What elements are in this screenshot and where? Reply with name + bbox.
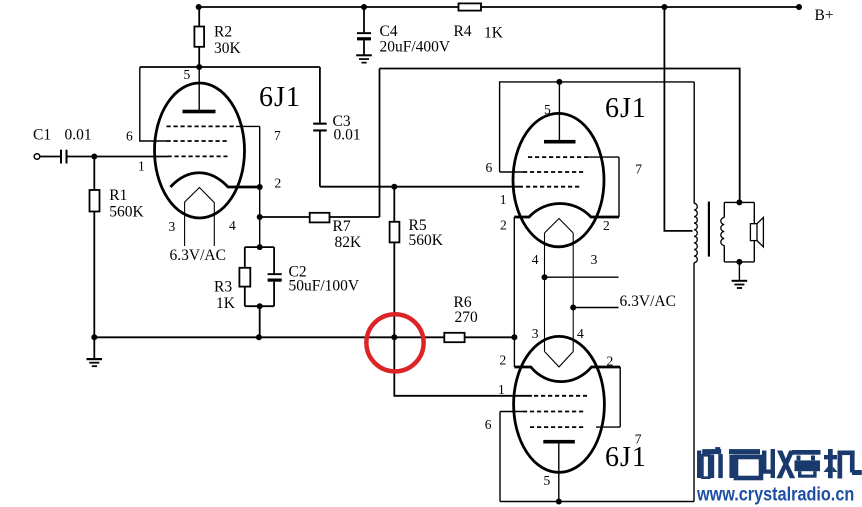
tube V2 grid row2 (pin6) <box>500 171 523 173</box>
glyph yin <box>792 450 821 478</box>
tube V1 plate bar <box>183 110 216 114</box>
wire heater feed lower <box>573 307 618 309</box>
tube V3 heater tent <box>545 352 574 367</box>
svg-text:560K: 560K <box>409 232 444 249</box>
svg-text:7: 7 <box>635 162 642 177</box>
node junction pin5 tube1 <box>196 64 202 70</box>
node junction R3C2 top <box>257 244 263 250</box>
tube V1 grid row3 (pin1) <box>168 155 228 157</box>
wire feedback rail <box>380 69 740 203</box>
svg-text:2: 2 <box>275 176 282 191</box>
transformer T1 secondary <box>721 202 725 262</box>
node junction pin2 tube1 <box>257 184 263 190</box>
node junction cathode chain <box>511 334 517 340</box>
tube V2 envelope <box>513 113 604 246</box>
highlight red circle <box>366 314 423 371</box>
tube V1 grid row1 (pin7) <box>167 125 237 127</box>
tube V2 cathode arc <box>514 204 619 218</box>
ground symbol main <box>87 337 103 367</box>
wire R3C2 to ground rail <box>259 306 261 337</box>
glyph ji <box>824 449 862 479</box>
svg-text:3: 3 <box>169 219 176 234</box>
wire feedback riser <box>379 69 381 218</box>
tube V3 grid row2 (pin6) <box>500 411 523 413</box>
tube V3 pin6 bracket <box>499 412 501 502</box>
glyph shou <box>762 449 795 478</box>
resistor R7 <box>260 213 380 223</box>
wire R3C2 top bar <box>245 246 274 248</box>
node junction R3C2 bottom <box>257 303 263 309</box>
tube V2 box top <box>500 82 695 172</box>
wire bottom rail <box>500 501 694 503</box>
tube V1 envelope <box>155 83 245 218</box>
node junction heater lower <box>570 305 576 311</box>
node junction heater upper <box>542 274 548 280</box>
transformer T1 primary <box>694 203 697 501</box>
input terminal C1 <box>34 154 40 160</box>
capacitor C3 <box>313 67 327 187</box>
tube V1 cathode arc <box>170 173 259 187</box>
svg-text:82K: 82K <box>335 234 363 251</box>
wire R3C2 bottom bar <box>245 305 274 307</box>
wire grid3 feed <box>394 337 532 396</box>
tube V2 cathode drop <box>513 217 515 337</box>
resistor R4 (in top rail) <box>459 3 482 10</box>
tube V3 grid row3 (pin7) <box>530 426 586 428</box>
node junction pin5 tube2 <box>556 79 562 85</box>
svg-text:0.01: 0.01 <box>334 127 361 144</box>
node junction secondary top <box>736 199 742 205</box>
wire B+ drop to primary tap <box>664 7 692 231</box>
node junction R7 tap <box>257 214 263 220</box>
svg-text:R7: R7 <box>333 218 351 235</box>
svg-text:20uF/400V: 20uF/400V <box>380 38 451 55</box>
ground below C4 <box>356 54 372 63</box>
node junction pin5 tube3 <box>556 499 562 505</box>
svg-text:R3: R3 <box>214 279 232 296</box>
svg-text:50uF/100V: 50uF/100V <box>289 277 360 294</box>
tube V2 pin5 lead <box>558 82 560 142</box>
svg-text:B+: B+ <box>815 7 834 24</box>
tube V1 heater tent <box>185 188 215 247</box>
tube V2 pin7 bracket <box>618 157 620 217</box>
wire secondary top bar <box>724 201 754 203</box>
wire tube1 plate rail <box>140 66 320 68</box>
tube V2 grid row1 (pin7) <box>528 156 588 158</box>
svg-text:1K: 1K <box>216 295 236 312</box>
wire tube2 plate to primary <box>693 82 695 203</box>
wire coupling to tube2 grid <box>320 186 523 188</box>
svg-text:C4: C4 <box>380 23 398 40</box>
wire ground rail <box>94 336 444 338</box>
svg-text:6: 6 <box>485 417 492 432</box>
node junction plate-feed tap <box>661 4 667 10</box>
node junction red-circled <box>391 334 397 340</box>
resistor R6 <box>444 333 514 342</box>
svg-text:6J1: 6J1 <box>605 93 647 124</box>
svg-text:2: 2 <box>500 353 507 368</box>
svg-text:5: 5 <box>544 102 551 117</box>
svg-text:270: 270 <box>455 309 479 326</box>
resistor R1 <box>90 157 100 338</box>
svg-text:2: 2 <box>607 354 614 369</box>
svg-text:4: 4 <box>577 326 584 341</box>
resistor R5 <box>390 187 400 338</box>
svg-text:4: 4 <box>229 218 236 233</box>
node junction R2 top <box>196 4 202 10</box>
svg-text:7: 7 <box>274 128 281 143</box>
svg-text:6J1: 6J1 <box>605 442 647 473</box>
svg-text:C1: C1 <box>33 126 51 143</box>
capacitor C2 <box>268 247 282 306</box>
wire tube1 pin6 bracket <box>140 67 167 141</box>
ground below speaker <box>732 262 748 289</box>
glyph kuang <box>697 447 723 478</box>
svg-text:R4: R4 <box>454 23 472 40</box>
tube V3 pin7 bracket <box>619 367 621 427</box>
svg-text:1: 1 <box>500 192 507 207</box>
tube V2 grid row3 (pin1) <box>526 186 582 188</box>
svg-text:1: 1 <box>498 382 505 397</box>
svg-text:3: 3 <box>532 326 539 341</box>
tube V1 grid row2 (pin6) <box>167 140 228 142</box>
svg-text:6.3V/AC: 6.3V/AC <box>620 293 676 310</box>
tube V3 plate bar <box>543 440 575 444</box>
wire heater left leg <box>544 233 546 352</box>
svg-text:3: 3 <box>591 252 598 267</box>
svg-text:4: 4 <box>532 252 539 267</box>
node junction R3C2 ground <box>256 334 262 340</box>
svg-text:6: 6 <box>126 129 133 144</box>
tube V2 heater tent <box>545 219 574 234</box>
svg-text:5: 5 <box>544 473 551 488</box>
transformer core <box>708 202 710 257</box>
svg-text:30K: 30K <box>214 40 242 57</box>
glyph shi <box>729 449 761 478</box>
svg-text:0.01: 0.01 <box>65 126 92 143</box>
tube V3 pin5 lead <box>558 444 560 502</box>
node B+ terminal <box>796 4 802 10</box>
tube V1 pin5 lead <box>198 67 200 112</box>
svg-text:1: 1 <box>138 159 145 174</box>
svg-text:1K: 1K <box>484 24 504 41</box>
node junction grid input <box>91 154 97 160</box>
svg-text:5: 5 <box>184 67 191 82</box>
svg-text:R2: R2 <box>214 23 232 40</box>
tube V3 cathode drop left <box>513 337 515 367</box>
tube V3 envelope <box>514 336 605 472</box>
svg-text:6J1: 6J1 <box>259 82 301 113</box>
tube V3 grid row1 (pin1) <box>534 395 587 397</box>
wire secondary bottom bar <box>724 261 754 263</box>
tube V3 cathode arc <box>514 367 620 382</box>
svg-text:7: 7 <box>635 432 642 447</box>
wire heater right leg <box>572 233 574 352</box>
node junction C4 top <box>361 4 367 10</box>
wire heater feed upper <box>545 276 619 278</box>
svg-text:2: 2 <box>500 218 507 233</box>
svg-text:560K: 560K <box>109 204 144 221</box>
svg-text:6.3V/AC: 6.3V/AC <box>170 247 226 264</box>
node junction ground rail left <box>91 334 97 340</box>
node junction R5 top <box>391 184 397 190</box>
capacitor C4 <box>357 7 371 55</box>
tube V1 pin7/2 bracket <box>259 126 261 247</box>
resistor R3 <box>239 247 250 306</box>
watermark logo text <box>697 447 862 478</box>
wire B+ top rail <box>199 6 799 8</box>
tube V2 plate bar <box>544 140 576 144</box>
svg-text:6: 6 <box>486 160 493 175</box>
svg-text:2: 2 <box>603 218 610 233</box>
svg-text:R1: R1 <box>109 187 127 204</box>
node junction secondary bottom <box>736 259 742 265</box>
svg-text:www.crystalradio.cn: www.crystalradio.cn <box>696 483 854 505</box>
resistor R2 <box>194 7 204 67</box>
capacitor C1 <box>40 150 168 164</box>
speaker LS1 <box>750 202 763 262</box>
